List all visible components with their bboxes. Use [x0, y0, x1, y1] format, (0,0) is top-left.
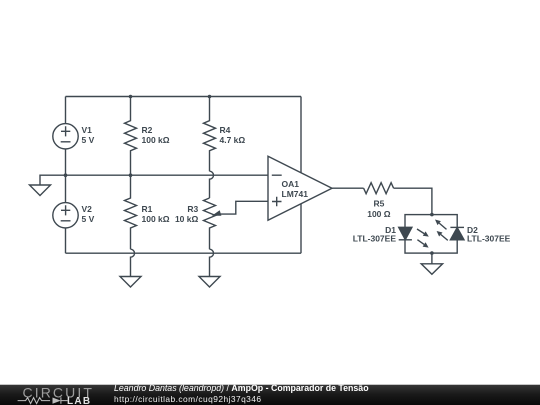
LED D1 [353, 225, 412, 243]
node LED box top junction [430, 213, 434, 217]
ground GND1 [30, 185, 51, 196]
svg-text:LTL-307EE: LTL-307EE [467, 234, 511, 244]
svg-text:LTL-307EE: LTL-307EE [353, 234, 397, 244]
footer bar [0, 384, 540, 405]
wire middle rail to op-amp minus input [66, 174, 269, 176]
svg-text:5 V: 5 V [82, 214, 95, 224]
svg-text:100 kΩ: 100 kΩ [142, 214, 170, 224]
svg-text:R1: R1 [142, 204, 153, 214]
svg-text:5 V: 5 V [82, 135, 95, 145]
LED D1 emission arrows [417, 229, 429, 248]
ground GND3 under R3 [199, 277, 220, 288]
resistor R1 [125, 175, 170, 249]
voltage source V1 [53, 124, 95, 149]
ground GND2 under R1 [120, 277, 141, 288]
svg-text:V1: V1 [82, 125, 93, 135]
wire V1 bottom to V2 top [65, 149, 67, 203]
ground GND4 under LED box [421, 264, 442, 275]
svg-text:OA1: OA1 [282, 179, 300, 189]
wire V2 bottom lead [65, 228, 67, 253]
wire ground stub left [40, 175, 66, 185]
svg-text:LAB: LAB [67, 396, 91, 405]
LED D2 [450, 225, 510, 243]
potentiometer R3 [175, 198, 216, 249]
wire R3 hop over bottom rail [210, 249, 214, 276]
svg-text:LM741: LM741 [282, 189, 309, 199]
resistor R2 [125, 97, 170, 176]
wire top rail [66, 96, 302, 98]
svg-text:V2: V2 [82, 204, 93, 214]
node R2 top junction [129, 95, 133, 99]
wire V1 top lead [65, 97, 67, 124]
credit line 2 [114, 394, 262, 404]
svg-text:R3: R3 [187, 204, 198, 214]
resistor R5 [364, 183, 394, 219]
wire LED box to ground [431, 253, 433, 264]
node R2 bottom junction [129, 173, 133, 177]
op-amp OA1 [268, 156, 332, 220]
node V1-V2-gnd junction [64, 173, 68, 177]
svg-text:100 Ω: 100 Ω [367, 209, 391, 219]
svg-text:10 kΩ: 10 kΩ [175, 214, 199, 224]
wire R3 wiper to op-amp plus input [212, 201, 268, 216]
node R4 top junction [208, 95, 212, 99]
wire R5 to LED box [394, 188, 432, 214]
wire LED box [405, 215, 457, 254]
svg-text:R4: R4 [220, 125, 231, 135]
voltage source V2 [53, 203, 95, 228]
resistor R4 [204, 97, 246, 172]
wire op-amp output [332, 187, 364, 189]
node LED box bottom junction [430, 251, 434, 255]
wire R1 hop over bottom rail [131, 249, 135, 276]
svg-text:100 kΩ: 100 kΩ [142, 135, 170, 145]
wire bottom rail [66, 252, 302, 254]
wire R4 hop over middle rail [210, 171, 214, 198]
svg-text:R5: R5 [373, 199, 384, 209]
credit line 1 [114, 383, 369, 393]
svg-text:4.7 kΩ: 4.7 kΩ [220, 135, 246, 145]
LED D2 emission arrows [435, 220, 448, 241]
CircuitLab logo [0, 384, 110, 405]
wire right loop vertical (behind op-amp) [300, 97, 302, 254]
svg-text:R2: R2 [142, 125, 153, 135]
